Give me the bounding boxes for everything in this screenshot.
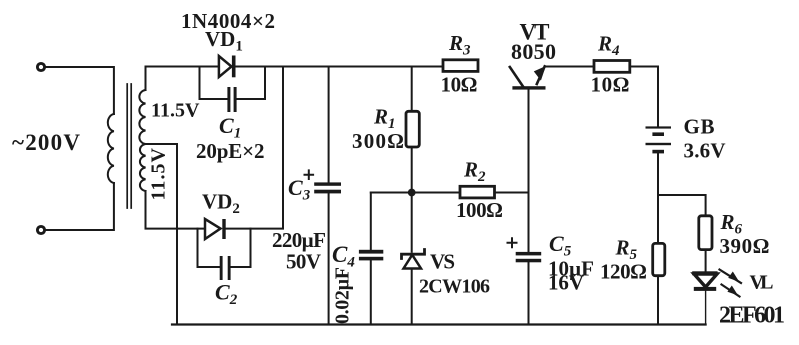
plus sign C3 xyxy=(305,170,314,179)
svg-text:11.5V: 11.5V xyxy=(151,100,200,122)
wire battery to node B xyxy=(657,153,659,243)
node A junction dot xyxy=(408,189,416,197)
wire primary top lead xyxy=(46,67,114,114)
capacitor C4 xyxy=(359,250,383,254)
wire secondary top lead to top rail xyxy=(145,67,147,91)
wire R5 to bottom rail xyxy=(657,276,659,325)
svg-text:390Ω: 390Ω xyxy=(720,234,770,258)
wire C1 parallel branch xyxy=(200,67,228,100)
svg-text:10Ω: 10Ω xyxy=(591,73,630,97)
svg-text:0.02µF: 0.02µF xyxy=(332,267,354,324)
diode VD2 xyxy=(205,219,221,239)
svg-text:VL: VL xyxy=(750,272,774,294)
wire top rail after VD1 xyxy=(236,66,444,68)
transformer secondary winding xyxy=(139,90,145,191)
resistor R5 xyxy=(653,243,665,275)
wire VD2 cathode to riser xyxy=(226,67,283,229)
resistor R2 xyxy=(460,186,495,198)
wire secondary bottom lead down and right to VD2 xyxy=(146,191,206,229)
svg-text:~200V: ~200V xyxy=(12,130,80,155)
svg-text:16V: 16V xyxy=(548,271,584,295)
svg-text:50V: 50V xyxy=(286,250,321,274)
terminal top-left xyxy=(37,63,44,70)
capacitor C1 xyxy=(227,87,230,112)
wire top rail left section xyxy=(146,66,219,68)
capacitor C3 xyxy=(314,182,341,185)
zener diode VS xyxy=(402,250,425,259)
transformer primary winding xyxy=(108,114,114,183)
svg-text:300Ω: 300Ω xyxy=(352,129,404,153)
svg-text:3.6V: 3.6V xyxy=(684,139,726,163)
wire rail emitter to R4 xyxy=(545,66,594,68)
diode VD1 xyxy=(219,56,232,77)
svg-text:120Ω: 120Ω xyxy=(600,260,647,284)
svg-text:GB: GB xyxy=(684,115,715,139)
resistor R6 xyxy=(699,216,712,250)
wire primary bottom lead xyxy=(46,183,114,230)
wire node line R1-R2 xyxy=(371,192,460,194)
wire C3 branch xyxy=(328,67,330,183)
transistor VT base bar xyxy=(512,86,545,89)
wire C4 branch xyxy=(370,193,372,250)
svg-text:100Ω: 100Ω xyxy=(456,198,503,222)
capacitor C2 xyxy=(220,256,223,280)
transformer core xyxy=(126,84,128,208)
svg-text:10Ω: 10Ω xyxy=(441,73,478,97)
svg-text:2EF601: 2EF601 xyxy=(719,303,785,329)
svg-text:8050: 8050 xyxy=(511,39,556,64)
wire R6 to VL xyxy=(705,250,707,272)
LED light arrow 2 xyxy=(722,285,740,297)
resistor R4 xyxy=(594,61,630,73)
bottom rail xyxy=(172,323,706,325)
svg-text:20pE×2: 20pE×2 xyxy=(196,139,265,163)
wire VS lead xyxy=(411,193,413,252)
wire C2 parallel branch xyxy=(198,229,220,267)
transistor VT collector xyxy=(510,67,523,86)
wire base lead xyxy=(528,90,530,252)
svg-text:11.5V: 11.5V xyxy=(148,147,170,200)
LED light arrow 1 xyxy=(720,270,742,284)
svg-text:220µF: 220µF xyxy=(272,228,326,252)
wire VS to bottom rail xyxy=(411,269,413,325)
svg-text:2CW106: 2CW106 xyxy=(419,276,490,298)
resistor R3 xyxy=(443,60,478,72)
svg-text:VS: VS xyxy=(430,250,455,274)
plus sign C5 xyxy=(508,238,517,247)
wire center tap to bottom rail xyxy=(146,144,178,325)
wire branch to R6 xyxy=(658,195,706,216)
terminal bottom-left xyxy=(37,226,44,233)
wire VL to bottom rail xyxy=(705,291,707,325)
LED VL xyxy=(692,271,717,275)
wire R4 to battery xyxy=(630,67,658,127)
capacitor C5 xyxy=(516,252,542,256)
resistor R1 xyxy=(406,111,419,147)
wire C5 to bottom rail xyxy=(528,262,530,324)
transistor VT emitter with arrow xyxy=(537,66,545,84)
wire R1 leads xyxy=(411,67,413,112)
battery GB xyxy=(646,126,672,128)
